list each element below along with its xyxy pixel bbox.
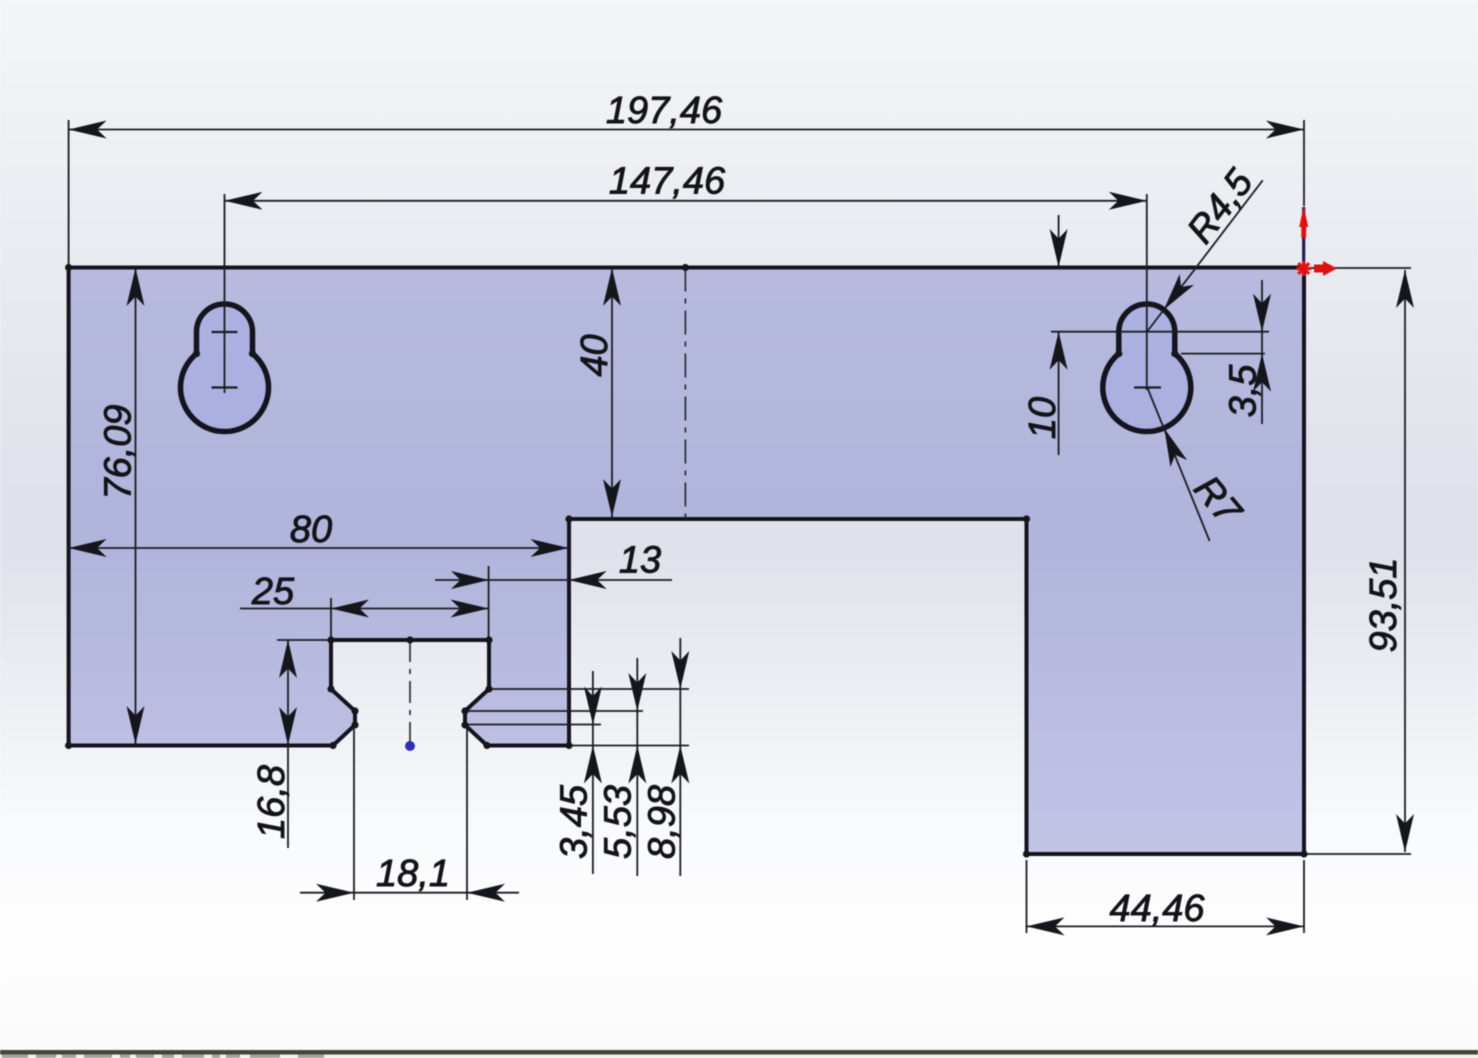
svg-text:44,46: 44,46 (1109, 888, 1205, 930)
svg-text:16,8: 16,8 (251, 765, 293, 839)
svg-text:18,1: 18,1 (376, 853, 450, 895)
svg-text:5,53: 5,53 (598, 785, 640, 859)
svg-text:3,5: 3,5 (1223, 364, 1265, 418)
svg-text:13: 13 (619, 540, 661, 582)
svg-text:147,46: 147,46 (609, 161, 726, 203)
svg-text:197,46: 197,46 (606, 90, 723, 132)
svg-text:80: 80 (290, 509, 332, 551)
svg-text:93,51: 93,51 (1363, 557, 1405, 652)
svg-text:40: 40 (574, 334, 616, 376)
svg-text:3,45: 3,45 (554, 784, 596, 859)
svg-text:8,98: 8,98 (642, 785, 684, 859)
svg-text:76,09: 76,09 (98, 404, 140, 499)
svg-text:10: 10 (1022, 397, 1064, 439)
svg-text:25: 25 (251, 571, 295, 613)
